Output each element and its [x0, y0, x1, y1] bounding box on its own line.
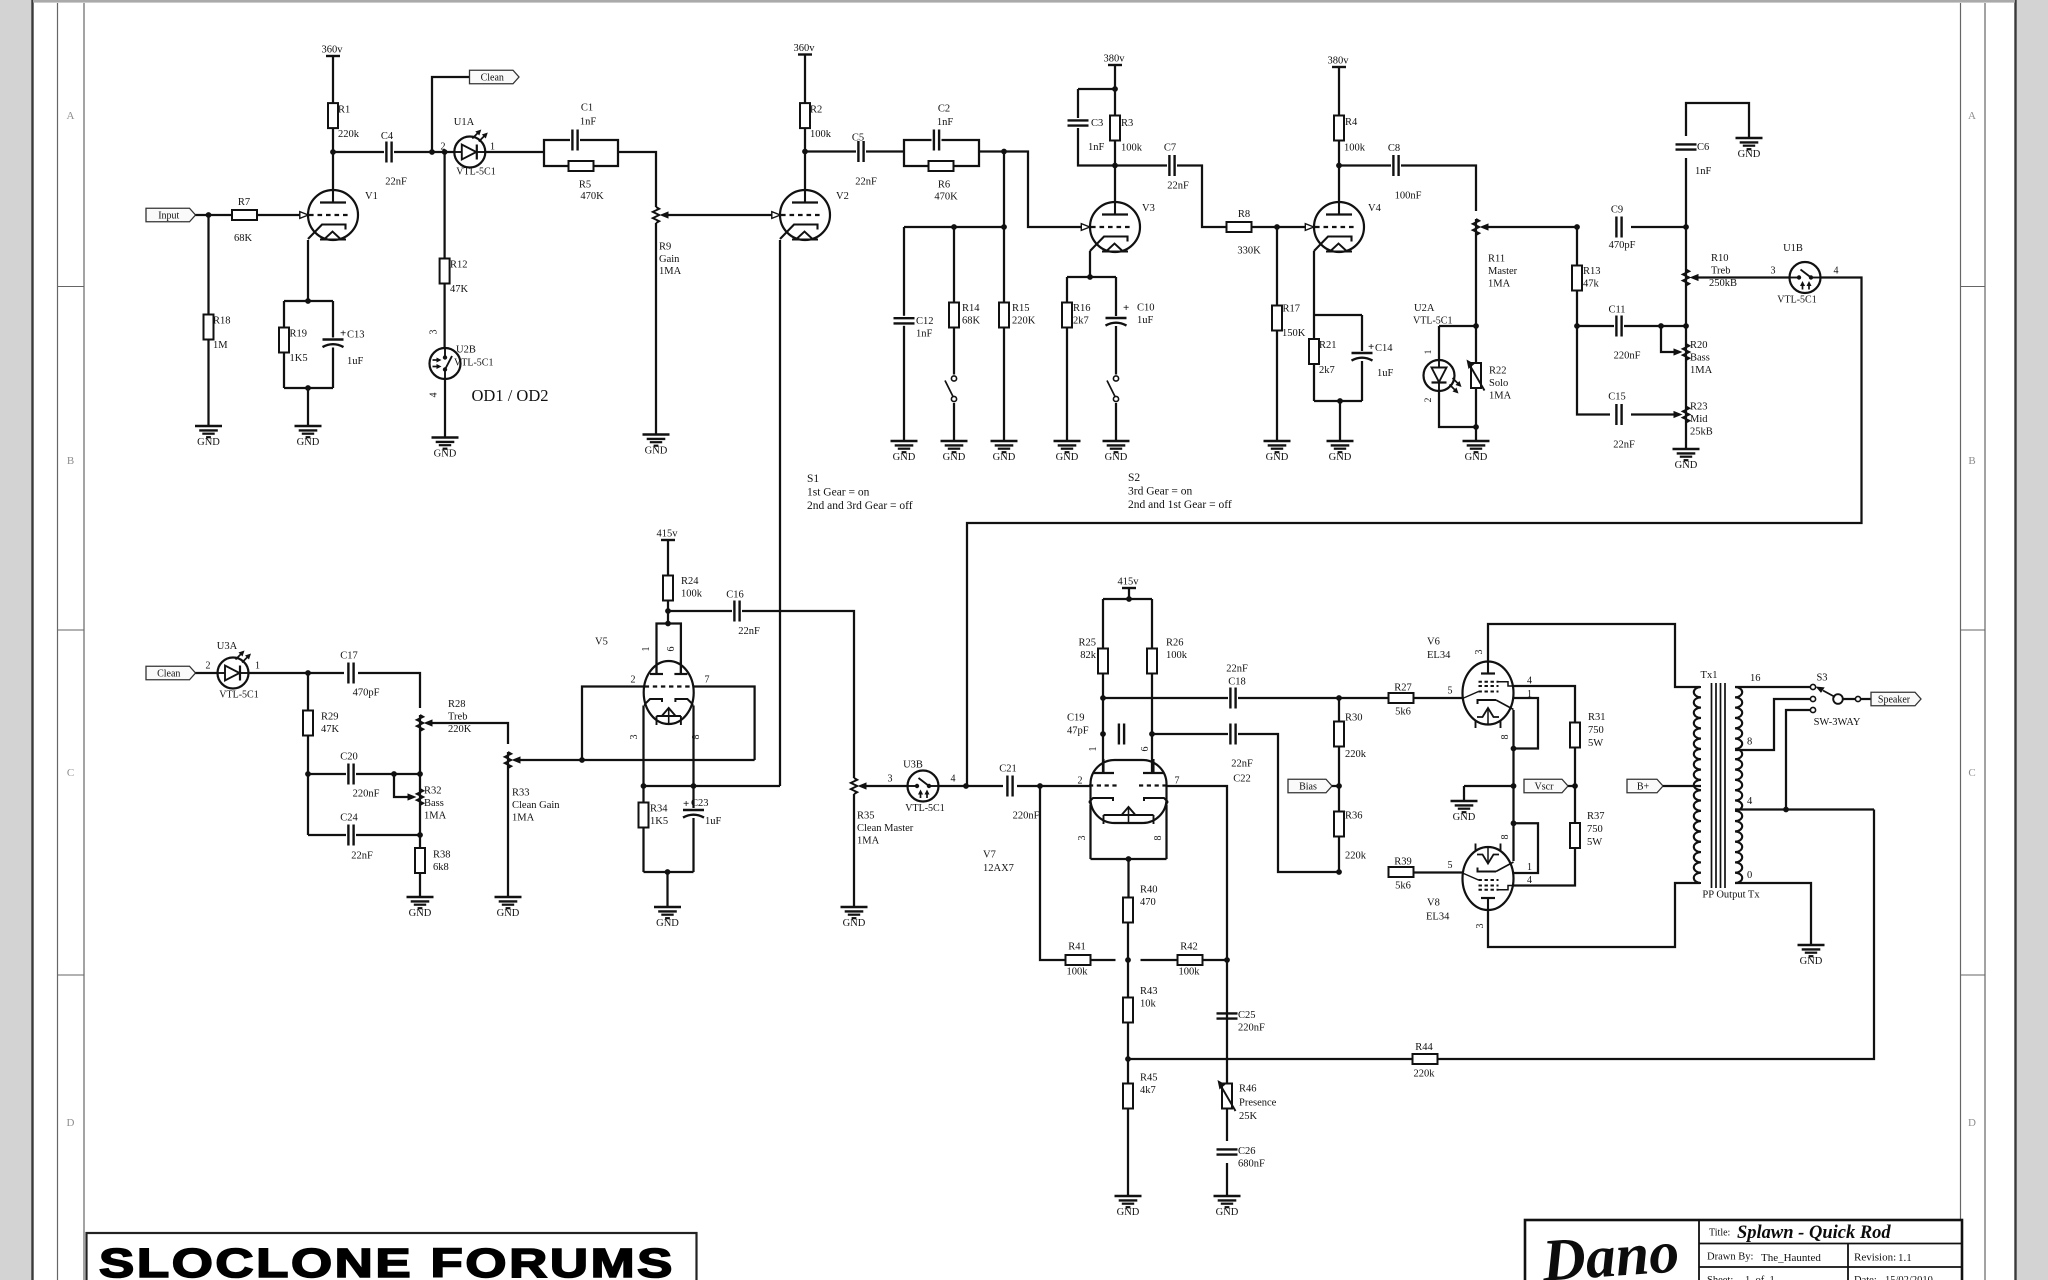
resistor R37 — [1570, 811, 1605, 848]
ground (R38) — [407, 897, 434, 919]
parallel network C2/R6 — [904, 104, 979, 203]
opto detector U1B — [1777, 243, 1820, 306]
svg-text:8: 8 — [1747, 737, 1752, 748]
node U2A/R22 bottom — [1473, 424, 1479, 430]
capacitor C6 — [1675, 142, 1712, 177]
ground (C26) — [1214, 1196, 1241, 1218]
svg-text:415v: 415v — [1118, 577, 1140, 588]
svg-text:Vscr: Vscr — [1535, 781, 1555, 792]
node tap 4 riser — [1783, 807, 1789, 813]
net flag Clean (input of clean channel) — [146, 666, 196, 680]
svg-text:C21: C21 — [999, 764, 1017, 775]
node bass line — [1683, 323, 1689, 329]
wire V6 screen to R31 — [1514, 686, 1576, 723]
wire C17 to R28 — [358, 673, 420, 708]
svg-text:680nF: 680nF — [1238, 1159, 1265, 1170]
svg-text:1MA: 1MA — [1488, 279, 1511, 290]
svg-text:5k6: 5k6 — [1395, 881, 1411, 892]
capacitor C11 — [1608, 305, 1640, 362]
pin 6 label V5 — [666, 647, 677, 652]
net flag Clean (OD channel) — [470, 70, 520, 84]
wire V6 pin1 loop — [1514, 698, 1539, 749]
pin 3 label V6 — [1474, 650, 1485, 655]
svg-text:R11: R11 — [1488, 254, 1505, 265]
wire R27 to V6 grid — [1414, 697, 1464, 699]
wire C14 branch — [1361, 315, 1363, 401]
wire U2B to GND — [444, 379, 446, 438]
ground (R45) — [1115, 1196, 1142, 1218]
wire C13 branch — [332, 301, 334, 388]
svg-text:2nd and 1st Gear = off: 2nd and 1st Gear = off — [1128, 499, 1232, 511]
ground (U2B) — [432, 438, 459, 460]
svg-text:0: 0 — [1747, 870, 1752, 881]
capacitor C20 — [340, 752, 379, 800]
potentiometer R33 Clean Gain — [505, 752, 560, 897]
potentiometer R28 Treb — [417, 699, 472, 848]
wire V5 pin7 riser — [694, 687, 755, 761]
svg-text:470pF: 470pF — [1609, 240, 1636, 251]
node cathode rail — [1511, 783, 1517, 789]
wire V5 pin2 riser — [582, 687, 644, 761]
svg-text:10k: 10k — [1140, 999, 1157, 1010]
svg-text:750: 750 — [1587, 824, 1603, 835]
potentiometer R9 Gain — [653, 207, 682, 435]
svg-text:B: B — [1968, 455, 1975, 467]
svg-text:R13: R13 — [1583, 266, 1601, 277]
wire R14 branch — [953, 227, 955, 441]
wire R40 to tail node — [1127, 923, 1129, 961]
svg-text:360v: 360v — [794, 43, 816, 54]
wire R17 branch — [1276, 227, 1278, 441]
svg-text:C1: C1 — [581, 103, 593, 114]
wire R38 to GND — [419, 873, 421, 897]
svg-text:Splawn - Quick Rod: Splawn - Quick Rod — [1737, 1223, 1891, 1243]
ground (C12) — [891, 441, 918, 463]
svg-text:GND: GND — [497, 908, 520, 919]
capacitor C4 — [381, 131, 407, 188]
svg-text:D: D — [1968, 1117, 1976, 1129]
svg-text:VTL-5C1: VTL-5C1 — [1413, 316, 1452, 327]
svg-text:R26: R26 — [1166, 638, 1184, 649]
pin 8 label V7 — [1153, 836, 1164, 841]
svg-text:360v: 360v — [322, 45, 344, 56]
ground (R33) — [495, 897, 522, 919]
svg-text:GND: GND — [1675, 460, 1698, 471]
transformer core — [1712, 683, 1726, 888]
svg-text:380v: 380v — [1328, 56, 1350, 67]
pin 7 label V7 — [1175, 776, 1180, 787]
svg-text:R37: R37 — [1587, 811, 1605, 822]
node C11 to bass wiper — [1658, 323, 1664, 329]
svg-text:4k7: 4k7 — [1140, 1085, 1156, 1096]
svg-text:U2A: U2A — [1414, 303, 1435, 314]
svg-text:1nF: 1nF — [937, 117, 954, 128]
wire shunt rail — [904, 226, 1004, 228]
resistor R1 — [328, 103, 360, 140]
wire to GND (R22) — [1475, 427, 1477, 441]
svg-text:Clean: Clean — [481, 72, 504, 83]
node cathode network bottom — [305, 385, 311, 391]
pin 2 label V5 — [631, 675, 636, 686]
pin 5 label V6 — [1448, 686, 1453, 697]
wire V3 plate — [1114, 166, 1116, 203]
ground (R15) — [991, 441, 1018, 463]
capacitor C9 — [1609, 205, 1636, 252]
triode V3 — [1090, 201, 1155, 252]
node V5 cathode bottom — [665, 869, 671, 875]
wire input to R7 — [196, 214, 233, 216]
svg-text:1nF: 1nF — [1088, 142, 1105, 153]
svg-text:VTL-5C1: VTL-5C1 — [456, 167, 495, 178]
svg-text:Title:: Title: — [1709, 1228, 1730, 1239]
power supply 360v (V2) — [794, 43, 816, 103]
wire V5 cathode left — [642, 706, 644, 787]
svg-text:1M: 1M — [213, 340, 228, 351]
power supply 360v (V1) — [322, 45, 344, 104]
resistor R39 — [1389, 857, 1414, 892]
svg-text:25kB: 25kB — [1690, 427, 1713, 438]
svg-text:5W: 5W — [1588, 738, 1603, 749]
wire R25 branch — [1102, 599, 1104, 649]
node V4 plate junction — [1336, 163, 1342, 169]
wire U2A top rail — [1439, 325, 1476, 327]
svg-text:C4: C4 — [381, 131, 394, 142]
wire contact to flag — [1861, 698, 1872, 700]
svg-text:GND: GND — [197, 437, 220, 448]
capacitor C3 — [1067, 118, 1105, 153]
wire tap drop — [1003, 152, 1005, 228]
svg-text:C7: C7 — [1164, 143, 1176, 154]
wire C18 node to R27 — [1339, 697, 1389, 699]
node R42/C25 — [1224, 957, 1230, 963]
wire V2 plate — [804, 152, 806, 192]
svg-text:25K: 25K — [1239, 1111, 1258, 1122]
capacitor C21 — [999, 764, 1039, 822]
svg-text:D: D — [67, 1117, 75, 1129]
node C20 right — [417, 771, 423, 777]
svg-text:R5: R5 — [579, 180, 591, 191]
svg-text:2: 2 — [206, 661, 211, 672]
pin 6 label V7 — [1140, 747, 1151, 752]
revision cell — [1854, 1252, 1912, 1265]
node C16 tap — [665, 608, 671, 614]
ground (C10) — [1103, 441, 1130, 463]
wire R34/C23 bottom rail — [644, 871, 694, 873]
node screen supply — [1572, 783, 1578, 789]
svg-text:R42: R42 — [1180, 942, 1198, 953]
svg-text:2k7: 2k7 — [1073, 316, 1089, 327]
svg-text:Revision:: Revision: — [1854, 1252, 1896, 1264]
wire C15 row — [1577, 326, 1610, 415]
resistor R25 — [1078, 638, 1108, 674]
svg-text:22nF: 22nF — [1226, 664, 1248, 675]
ground (speaker 0) — [1798, 945, 1825, 967]
svg-text:S3: S3 — [1816, 673, 1827, 684]
svg-text:C11: C11 — [1608, 305, 1625, 316]
wire cathode rail to GND — [1464, 785, 1514, 787]
pin 3 label V7 — [1077, 836, 1088, 841]
wire R19/C13 top rail — [284, 300, 333, 302]
wire V7 cathode left — [1089, 805, 1091, 860]
svg-text:16: 16 — [1750, 673, 1761, 684]
wire R28 wiper to R33 — [433, 723, 509, 744]
svg-text:1MA: 1MA — [659, 266, 682, 277]
node V5 plate box top — [665, 621, 671, 627]
wire V8 pin1 loop — [1514, 823, 1539, 873]
svg-text:1MA: 1MA — [1489, 391, 1512, 402]
svg-text:R2: R2 — [810, 105, 822, 116]
svg-text:22nF: 22nF — [1231, 759, 1253, 770]
svg-text:22nF: 22nF — [1167, 181, 1189, 192]
capacitor C22 — [1228, 723, 1253, 785]
svg-text:1: 1 — [1527, 862, 1532, 873]
wire to GND (V1 cathode) — [307, 388, 309, 426]
wire C26 to GND — [1226, 1163, 1228, 1196]
svg-text:415v: 415v — [657, 529, 679, 540]
svg-text:220k: 220k — [338, 129, 360, 140]
svg-text:U3B: U3B — [903, 760, 923, 771]
svg-text:GND: GND — [645, 446, 668, 457]
svg-text:V1: V1 — [365, 191, 378, 202]
svg-text:GND: GND — [1329, 452, 1352, 463]
wire bass wiper — [1661, 326, 1674, 352]
svg-text:R40: R40 — [1140, 885, 1158, 896]
svg-text:47K: 47K — [321, 724, 340, 735]
node V1 plate junction — [330, 149, 336, 155]
svg-text:PP Output Tx: PP Output Tx — [1702, 890, 1760, 901]
svg-text:250kB: 250kB — [1709, 278, 1737, 289]
wire C22 row — [1152, 734, 1339, 872]
pentode V8 EL34 — [1426, 844, 1514, 923]
wire R41 riser — [1040, 786, 1066, 960]
svg-text:C16: C16 — [726, 590, 744, 601]
svg-text:1uF: 1uF — [705, 816, 722, 827]
capacitor C23 (polarized) — [682, 798, 722, 827]
svg-text:C19: C19 — [1067, 713, 1085, 724]
svg-text:100k: 100k — [1179, 967, 1201, 978]
capacitor C15 — [1608, 392, 1635, 451]
svg-text:+: + — [683, 798, 689, 810]
svg-text:220K: 220K — [448, 724, 472, 735]
wire U3B pin4 to node — [939, 785, 1004, 787]
svg-text:GND: GND — [843, 918, 866, 929]
svg-text:750: 750 — [1588, 725, 1604, 736]
capacitor C10 (polarized) — [1105, 302, 1155, 326]
svg-text:100k: 100k — [1121, 143, 1143, 154]
wire clean riser — [432, 77, 470, 152]
svg-text:R43: R43 — [1140, 986, 1158, 997]
node bias — [1336, 783, 1342, 789]
node V6 cathode loop — [1511, 746, 1517, 752]
resistor R14 — [949, 303, 981, 328]
svg-text:Gain: Gain — [659, 254, 680, 265]
wire to GND (V4 cathode) — [1339, 401, 1341, 441]
transformer Tx1 primary winding — [1694, 670, 1718, 883]
net flag Vscr — [1524, 779, 1568, 793]
resistor R17 — [1272, 304, 1306, 340]
wire V6 plate to transformer — [1488, 624, 1700, 687]
svg-text:1: 1 — [490, 142, 495, 153]
ground (V1 cathode) — [295, 426, 322, 448]
node U2A rail — [1473, 323, 1479, 329]
power supply 415v (V5) — [657, 529, 679, 576]
svg-text:R21: R21 — [1319, 340, 1337, 351]
node PI tail top — [1125, 957, 1131, 963]
svg-text:1nF: 1nF — [580, 117, 597, 128]
dual triode V7 — [983, 759, 1168, 874]
wire tap4 to switch — [1786, 710, 1810, 810]
wire C18 row — [1103, 697, 1339, 699]
node V8 cathode loop — [1511, 820, 1517, 826]
svg-text:6: 6 — [666, 647, 677, 652]
power supply 415v (V7) — [1118, 577, 1140, 600]
svg-text:1st Gear = on: 1st Gear = on — [807, 487, 870, 499]
wire stack vertical — [1685, 158, 1687, 449]
node R39 left — [1336, 869, 1342, 875]
wire V3 cathode — [1089, 251, 1091, 277]
svg-text:8: 8 — [1500, 835, 1511, 840]
svg-text:8: 8 — [1153, 836, 1164, 841]
node R41 riser tap — [1037, 783, 1043, 789]
wire R21 branch — [1313, 315, 1315, 401]
svg-text:3: 3 — [1771, 266, 1776, 277]
pin 2 label V7 — [1078, 776, 1083, 787]
svg-text:330K: 330K — [1237, 246, 1261, 257]
label S1 switch note — [807, 473, 913, 512]
wire R34 branch — [642, 786, 644, 872]
svg-text:220K: 220K — [1012, 316, 1036, 327]
svg-text:5: 5 — [1448, 860, 1453, 871]
svg-text:GND: GND — [1800, 956, 1823, 967]
potentiometer R46 Presence — [1218, 1080, 1277, 1141]
resistor R4 — [1334, 116, 1366, 154]
node C20 left — [305, 771, 311, 777]
secondary tap 8 — [1735, 699, 1810, 750]
svg-text:3: 3 — [888, 774, 893, 785]
capacitor C25 — [1216, 1010, 1266, 1034]
svg-text:V2: V2 — [836, 191, 849, 202]
grid arrow V3 — [1081, 224, 1090, 231]
svg-text:R20: R20 — [1690, 340, 1708, 351]
resistor R43 — [1123, 986, 1158, 1023]
svg-text:470K: 470K — [934, 192, 958, 203]
svg-text:U3A: U3A — [217, 641, 238, 652]
svg-text:GND: GND — [1117, 1207, 1140, 1218]
svg-text:GND: GND — [1105, 452, 1128, 463]
svg-text:R30: R30 — [1345, 713, 1363, 724]
secondary tap 4 — [1735, 796, 1874, 810]
svg-text:6k8: 6k8 — [433, 862, 449, 873]
svg-text:R32: R32 — [424, 786, 442, 797]
svg-text:Date:: Date: — [1854, 1275, 1877, 1280]
svg-text:GND: GND — [1056, 452, 1079, 463]
wire R35 wiper to U3B — [867, 785, 908, 787]
switch S2 contacts — [1107, 375, 1121, 404]
potentiometer R10 Treb — [1683, 253, 1737, 289]
svg-text:2: 2 — [1078, 776, 1083, 787]
svg-text:3: 3 — [1474, 650, 1485, 655]
wire R33 wiper to V5 grids — [521, 759, 755, 761]
svg-text:1: 1 — [641, 647, 652, 652]
svg-text:R35: R35 — [857, 811, 875, 822]
resistor R45 — [1123, 1059, 1158, 1196]
svg-text:1MA: 1MA — [1690, 365, 1713, 376]
svg-text:1MA: 1MA — [512, 813, 535, 824]
pin 4 label U1B — [1834, 266, 1839, 277]
node U3B / long net — [963, 783, 969, 789]
svg-text:R45: R45 — [1140, 1073, 1158, 1084]
svg-text:B+: B+ — [1637, 781, 1650, 792]
opto LED U3A — [217, 641, 260, 701]
svg-text:1MA: 1MA — [424, 811, 447, 822]
node V5 grid riser — [579, 757, 585, 763]
node R14/R15 tap — [1001, 149, 1007, 155]
svg-text:R25: R25 — [1078, 638, 1096, 649]
svg-text:C12: C12 — [916, 316, 934, 327]
pin 3 label U3B — [888, 774, 893, 785]
resistor R27 — [1389, 683, 1414, 718]
resistor R41 — [1066, 942, 1091, 978]
svg-text:1MA: 1MA — [857, 836, 880, 847]
wire R18 drop — [207, 215, 209, 426]
wire node to C4 to U1A — [333, 151, 455, 153]
pin 1 label V6 — [1527, 689, 1532, 700]
svg-text:7: 7 — [1175, 776, 1180, 787]
triode V2 — [780, 189, 849, 240]
resistor R21 — [1309, 339, 1337, 376]
opto detector U3B — [903, 760, 945, 815]
wire to GND (V5 cathode) — [666, 872, 668, 907]
pin 7 label V5 — [705, 675, 710, 686]
svg-text:100nF: 100nF — [1395, 191, 1422, 202]
resistor R2 — [800, 103, 832, 140]
svg-text:R12: R12 — [450, 260, 468, 271]
svg-text:380v: 380v — [1104, 54, 1126, 65]
ground (V4 cathode) — [1327, 441, 1354, 463]
svg-text:5: 5 — [1448, 686, 1453, 697]
node treble stack top — [1683, 224, 1689, 230]
node V2 plate junction — [802, 149, 808, 155]
svg-text:C23: C23 — [691, 798, 709, 809]
ground (C6 rail) — [1736, 138, 1763, 160]
label OD1 / OD2 — [472, 386, 549, 405]
svg-text:The_Haunted: The_Haunted — [1761, 1252, 1821, 1264]
wire R7 to V1 grid — [257, 214, 300, 216]
capacitor C5 — [852, 133, 877, 188]
node C18 tap — [1100, 695, 1106, 701]
svg-text:5k6: 5k6 — [1395, 707, 1411, 718]
svg-text:VTL-5C1: VTL-5C1 — [219, 690, 258, 701]
svg-text:R36: R36 — [1345, 811, 1363, 822]
power supply 380v (V4) — [1328, 56, 1350, 116]
wire R13 branch — [1576, 227, 1578, 326]
svg-text:EL34: EL34 — [1427, 650, 1451, 661]
wire R31 to R37 — [1574, 748, 1576, 824]
wire U1B pin4 long net — [967, 278, 1862, 787]
pin 4 label V8 — [1527, 875, 1532, 886]
potentiometer R11 Master — [1473, 219, 1518, 326]
svg-text:GND: GND — [656, 918, 679, 929]
svg-text:3: 3 — [429, 330, 440, 335]
resistor R44 — [1413, 1042, 1438, 1080]
wire R16 branch — [1066, 277, 1068, 441]
wire clean flag to U3A — [196, 672, 218, 674]
svg-text:12AX7: 12AX7 — [983, 863, 1014, 874]
pin 4 label U2B — [429, 393, 440, 398]
svg-text:C2: C2 — [938, 104, 950, 115]
svg-text:GND: GND — [434, 449, 457, 460]
svg-text:470: 470 — [1140, 897, 1156, 908]
